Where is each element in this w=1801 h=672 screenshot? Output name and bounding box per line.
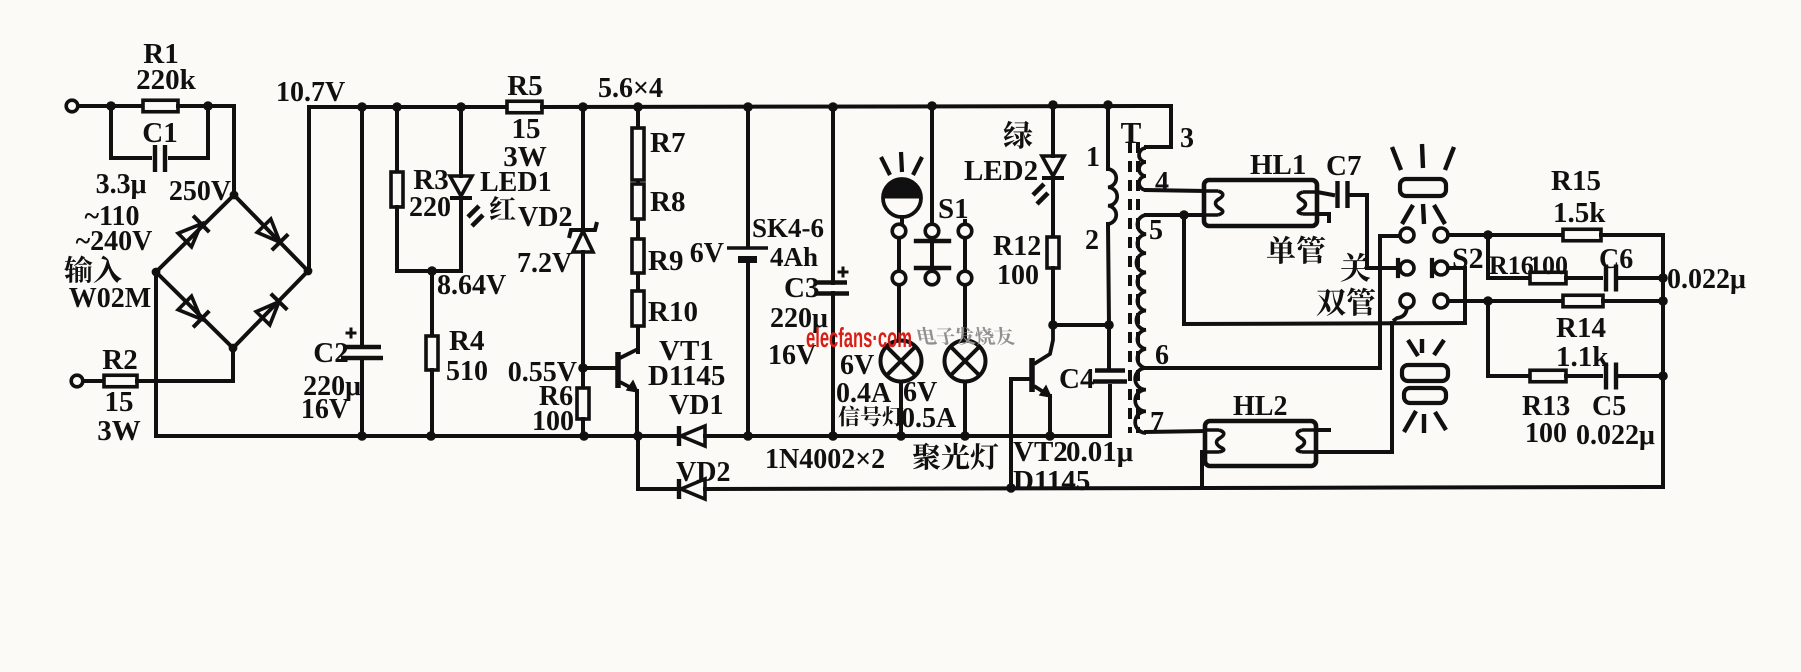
wire top rail left of R5: [309, 105, 507, 109]
S1 contact mid-bottom: [925, 271, 939, 285]
S2 contact left-mid: [1400, 261, 1414, 275]
wire battery top: [746, 107, 750, 246]
label 单管: [1267, 236, 1325, 264]
svg-text:HL2: HL2: [1233, 391, 1287, 422]
zener diode VD2: [569, 222, 597, 238]
node R14 right: [1658, 296, 1668, 306]
bridge diode top-left: [178, 224, 201, 247]
bridge node top: [230, 191, 239, 200]
svg-text:HL1: HL1: [1250, 149, 1306, 181]
resistor R2: [104, 375, 137, 387]
fluorescent tube HL2: [1205, 421, 1316, 466]
T secondary winding 6-7: [1135, 368, 1146, 433]
wire C7 to S2 mid-left: [1348, 195, 1396, 268]
wire R15 to right vertical: [1601, 235, 1663, 487]
svg-text:W02M: W02M: [69, 283, 151, 314]
wire HL1 to C7: [1317, 192, 1333, 195]
wire R4 bottom: [430, 370, 434, 436]
capacitor C7: [1335, 181, 1339, 208]
input terminal lower: [71, 375, 83, 387]
transistor VT1: [615, 352, 621, 388]
S1 contact right-bottom: [958, 271, 972, 285]
wire bridge minus down: [154, 272, 158, 436]
bridge diode top-right: [257, 219, 280, 242]
resistor R16: [1530, 272, 1566, 284]
S1 contact right-top: [958, 224, 972, 238]
wire C3 top: [831, 107, 835, 283]
wire C1 right: [170, 106, 208, 158]
S2 right-mid pole bar: [1430, 260, 1434, 276]
wire zener top: [581, 107, 585, 229]
wire C5 out: [1617, 374, 1663, 378]
svg-text:C2: C2: [313, 337, 348, 369]
wire to R14: [1488, 299, 1563, 303]
svg-text:1.5k: 1.5k: [1553, 197, 1606, 229]
bridge diode bottom-right: [256, 302, 279, 325]
fluorescent tube HL1: [1204, 180, 1317, 226]
wire R3 bottom: [395, 207, 399, 271]
svg-text:R10: R10: [648, 296, 698, 328]
transistor VT2: [1029, 358, 1035, 392]
wire indicator to S1: [900, 217, 904, 225]
svg-text:100: 100: [997, 260, 1039, 291]
svg-text:0.01μ: 0.01μ: [1066, 436, 1134, 468]
wire C1 left: [111, 106, 150, 158]
svg-text:6V: 6V: [690, 238, 724, 269]
wire S1 right mid: [963, 238, 967, 271]
wire bridge bottom stub: [231, 348, 235, 381]
label red 红: [490, 196, 516, 220]
indicator lamp (neon): [883, 179, 921, 217]
battery SK4-6: [727, 246, 768, 250]
node T primary rail: [1103, 100, 1113, 110]
capacitor C1: [153, 145, 157, 172]
svg-text:R14: R14: [1556, 312, 1606, 344]
wire R3 top: [395, 107, 399, 172]
LED2 emission arrows: [1033, 184, 1048, 204]
bridge diode bottom-left: [178, 296, 201, 319]
wire: [178, 104, 208, 108]
capacitor C2: [343, 345, 381, 349]
svg-text:1N4002×2: 1N4002×2: [765, 444, 885, 475]
node R7 rail: [633, 102, 643, 112]
svg-text:D1145: D1145: [1013, 465, 1090, 497]
wire to bridge top: [208, 106, 234, 195]
node 0.55V: [578, 363, 588, 373]
wire T primary bottom: [1108, 224, 1109, 325]
resistor R3: [391, 172, 403, 207]
svg-text:220: 220: [409, 192, 451, 223]
bridge rectifier W02M: [156, 195, 308, 348]
svg-text:5.6×4: 5.6×4: [598, 73, 663, 104]
resistor R14: [1563, 295, 1603, 307]
wire R16-C6: [1566, 276, 1601, 280]
lamp 信号灯 (6V 0.4A): [881, 341, 922, 382]
wire: [111, 104, 143, 108]
svg-text:0.022μ: 0.022μ: [1576, 420, 1655, 451]
HL2 right electrode: [1297, 430, 1316, 452]
svg-text:510: 510: [446, 356, 488, 387]
wire bottom rail right: [705, 386, 1110, 436]
svg-text:R15: R15: [1551, 165, 1601, 197]
wire S1 to lamp1: [897, 285, 901, 341]
wire R3-LED1 join: [397, 269, 461, 273]
svg-text:D1145: D1145: [648, 360, 725, 392]
wire LED2 to R12: [1051, 181, 1055, 237]
wire R2 to bridge: [137, 379, 233, 383]
resistor R9: [632, 239, 644, 273]
wire C6 out: [1617, 276, 1663, 280]
svg-text:4Ah: 4Ah: [770, 242, 818, 272]
wire HL2 lower-left to rail: [1202, 452, 1205, 487]
wire T primary top: [1106, 105, 1110, 169]
wire R6 bottom: [581, 419, 585, 436]
HL2 lit rays upper: [1408, 339, 1444, 356]
S1 contact left-bottom: [892, 271, 906, 285]
svg-text:R4: R4: [449, 325, 484, 357]
wire T pin6 to S2 top-left: [1146, 236, 1399, 368]
label spotlight 聚光灯: [913, 443, 998, 470]
resistor R1: [143, 100, 178, 112]
wire R6 top: [581, 368, 585, 388]
svg-text:4: 4: [1155, 167, 1169, 198]
wire HL2 lower-right: [1316, 450, 1391, 454]
S1 contact mid-top: [925, 224, 939, 238]
resistor R8: [632, 184, 644, 219]
HL2 lit bar upper: [1402, 365, 1448, 381]
svg-text:16V: 16V: [301, 394, 349, 425]
wire VT1 base: [583, 366, 616, 370]
S2 contact right-top: [1434, 228, 1448, 242]
node C3 rail: [828, 102, 838, 112]
wire C2 top: [360, 107, 364, 346]
node R15/R16: [1483, 230, 1493, 240]
svg-text:3: 3: [1180, 123, 1194, 154]
resistor R7: [632, 128, 644, 180]
svg-text:VT2: VT2: [1013, 436, 1068, 468]
label 关: [1341, 253, 1370, 282]
HL2 left electrode: [1205, 430, 1224, 452]
wire C2 bottom: [360, 358, 364, 436]
wire battery bottom: [746, 263, 750, 436]
LED LED2: [1042, 156, 1064, 176]
wire S1 to lamp2: [963, 285, 967, 341]
node pin5: [1179, 210, 1189, 220]
capacitor C5: [1604, 363, 1608, 390]
svg-text:6V: 6V: [840, 350, 874, 381]
wire R12 bottom: [1051, 268, 1055, 325]
label input 输入: [64, 256, 121, 284]
svg-text:100: 100: [532, 406, 574, 437]
svg-text:R9: R9: [648, 245, 683, 277]
wire R13-C5: [1566, 374, 1601, 378]
node LED1 rail: [456, 102, 466, 112]
HL1 left electrode: [1204, 191, 1223, 215]
label green 绿: [1004, 121, 1033, 149]
svg-text:R5: R5: [507, 70, 542, 102]
wire HL2 upper-right stub: [1316, 428, 1329, 432]
wire S2 right-mid to bus: [1448, 268, 1465, 322]
wire S1 right stub: [963, 221, 967, 224]
wire LED1 bottom: [459, 199, 463, 271]
svg-text:7.2V: 7.2V: [517, 248, 572, 279]
wire T pin5 to HL1: [1146, 213, 1204, 217]
wire bottom rail left: [156, 434, 679, 438]
resistor R4: [426, 336, 438, 370]
lamp 聚光灯 (6V 0.5A): [945, 341, 986, 382]
wire to R4: [430, 271, 434, 336]
svg-text:5: 5: [1149, 215, 1163, 246]
svg-text:VD2: VD2: [676, 457, 730, 488]
C2 polarity +: [346, 328, 357, 339]
svg-text:100: 100: [1529, 251, 1568, 280]
capacitor C3: [817, 280, 847, 284]
diode VD2 (lower): [677, 479, 681, 499]
wire VT2 base to lower rail: [1011, 379, 1030, 488]
node S1 rail: [927, 101, 937, 111]
HL1 right electrode: [1298, 192, 1317, 214]
S2 contact right-bottom: [1434, 294, 1448, 308]
S2 left-bottom hook: [1393, 308, 1407, 321]
wire to R15: [1488, 233, 1563, 237]
T core: [1130, 142, 1138, 433]
svg-text:C3: C3: [784, 272, 819, 304]
S1 contact left-top: [892, 224, 906, 238]
wire R7-R10 chain: [636, 107, 640, 352]
node R3 rail: [392, 102, 402, 112]
wire VT1 emitter: [635, 391, 639, 436]
svg-text:0.5A: 0.5A: [901, 403, 957, 434]
S2 contact left-bottom: [1400, 294, 1414, 308]
bridge node right: [304, 267, 313, 276]
wire bridge plus up: [307, 107, 311, 271]
svg-text:100: 100: [1525, 418, 1567, 449]
resistor R15: [1563, 229, 1601, 241]
svg-text:8.64V: 8.64V: [437, 270, 506, 301]
wire T pin7 to HL2: [1146, 431, 1205, 432]
wire S2 bottom-right out: [1448, 299, 1488, 303]
wire LED1 top: [459, 107, 463, 176]
label 信号灯: [838, 406, 903, 427]
HL2 lit bar lower: [1404, 388, 1446, 403]
node C6 right: [1658, 273, 1668, 283]
svg-text:~240V: ~240V: [76, 226, 153, 257]
svg-text:R7: R7: [650, 127, 685, 159]
wire lower branch from emitter node: [638, 436, 679, 489]
LED LED1: [450, 176, 472, 196]
indicator lamp rays: [881, 152, 922, 175]
wire lamp2 bottom: [963, 382, 967, 437]
svg-text:S2: S2: [1452, 242, 1484, 275]
T primary winding 1-2: [1108, 169, 1117, 224]
svg-text:R12: R12: [993, 231, 1041, 262]
node VT2 base/lower rail: [1006, 483, 1016, 493]
HL1 lit rays upper: [1392, 147, 1401, 170]
wire S1 pole from rail: [930, 106, 934, 224]
wire top rail to T pin3: [542, 106, 1171, 147]
wire pin5 down to bus: [1182, 215, 1186, 324]
svg-text:elecfans·com: elecfans·com: [806, 322, 912, 353]
node C5 right: [1658, 371, 1668, 381]
wire S1 mid: [930, 238, 934, 271]
LED1 emission arrows: [468, 206, 483, 226]
label 双管: [1317, 288, 1376, 316]
svg-text:C5: C5: [1592, 391, 1626, 422]
node 8.64V: [427, 266, 437, 276]
svg-text:LED2: LED2: [964, 155, 1038, 187]
resistor R13: [1530, 370, 1566, 382]
capacitor C6: [1604, 265, 1608, 292]
svg-text:C7: C7: [1326, 150, 1361, 182]
svg-text:C6: C6: [1599, 244, 1633, 275]
node R1-C1 right: [203, 101, 213, 111]
svg-text:VD1: VD1: [669, 390, 723, 421]
node C2 top rail: [357, 102, 367, 112]
node R1-C1 left: [106, 101, 116, 111]
node T pin2/C4: [1104, 320, 1114, 330]
S2 contact right-mid: [1434, 261, 1448, 275]
resistor R12: [1047, 237, 1059, 268]
svg-text:S1: S1: [938, 193, 969, 225]
node LED2 rail: [1048, 100, 1058, 110]
wire VT2 emitter: [1048, 396, 1052, 436]
resistor R5: [507, 101, 542, 113]
svg-text:0.4A: 0.4A: [836, 378, 892, 409]
svg-text:10.7V: 10.7V: [276, 77, 345, 108]
HL2 lit rays lower: [1404, 411, 1446, 433]
svg-text:R16: R16: [1489, 251, 1534, 280]
input terminal upper: [66, 100, 78, 112]
wire bus to HL2 lower-right: [1390, 323, 1394, 452]
node zener rail: [578, 102, 588, 112]
svg-text:LED1: LED1: [480, 167, 552, 198]
wire LED2 top: [1051, 105, 1055, 156]
wire to R16: [1488, 235, 1530, 278]
wire zener to 0.55V node: [581, 252, 585, 368]
wire R14 out: [1603, 299, 1663, 303]
S2 left-mid pole bar: [1396, 260, 1400, 276]
svg-text:1.1k: 1.1k: [1556, 341, 1609, 373]
wire to R13: [1488, 301, 1530, 376]
watermark 电子发烧友: [917, 327, 1016, 345]
wire S2 top-right out: [1448, 233, 1488, 237]
C3 polarity +: [838, 267, 849, 278]
wire R12-T2 node: [1053, 323, 1109, 327]
S1 movable bar upper: [916, 239, 949, 243]
S1 movable bar lower: [916, 266, 949, 270]
node R12/VT2 collector: [1048, 320, 1058, 330]
wire S1 left mid: [897, 238, 901, 271]
node R14/R13: [1483, 296, 1493, 306]
wire C3 bottom: [831, 293, 835, 436]
wire lower rail: [705, 487, 1663, 489]
svg-text:R8: R8: [650, 186, 685, 218]
capacitor C4: [1095, 368, 1125, 372]
wire: [78, 104, 111, 108]
HL1 lit rays lower: [1402, 204, 1445, 224]
wire C4 top: [1107, 325, 1111, 367]
svg-text:C1: C1: [142, 117, 177, 149]
wire T pin4 to HL1: [1146, 190, 1204, 191]
wire: [83, 379, 104, 383]
svg-text:3.3μ: 3.3μ: [96, 169, 147, 200]
T secondary winding 5-6: [1136, 215, 1146, 368]
HL1 lit bar: [1400, 179, 1446, 196]
wire lamp1 bottom: [899, 382, 903, 437]
svg-text:R2: R2: [102, 344, 137, 376]
svg-text:0.022μ: 0.022μ: [1667, 264, 1746, 295]
S2 contact left-top: [1400, 228, 1414, 242]
svg-text:C4: C4: [1059, 363, 1094, 395]
wire HL1 lower-right stub: [1317, 214, 1329, 221]
diode VD1: [677, 426, 681, 446]
svg-text:1: 1: [1086, 142, 1100, 173]
svg-text:SK4-6: SK4-6: [752, 213, 824, 243]
resistor R6: [577, 388, 589, 419]
T secondary winding 3-4: [1139, 148, 1146, 190]
svg-text:220k: 220k: [136, 64, 197, 96]
resistor R10: [632, 291, 644, 326]
svg-text:250V: 250V: [169, 176, 231, 207]
wire pin5 bus: [1184, 323, 1465, 324]
node battery rail: [743, 102, 753, 112]
bridge node bottom: [229, 344, 238, 353]
svg-text:VD2: VD2: [518, 202, 572, 233]
svg-text:15: 15: [105, 386, 134, 418]
svg-text:3W: 3W: [97, 415, 141, 447]
svg-text:T: T: [1121, 115, 1142, 150]
svg-text:2: 2: [1085, 225, 1099, 256]
bridge node left: [152, 268, 161, 277]
